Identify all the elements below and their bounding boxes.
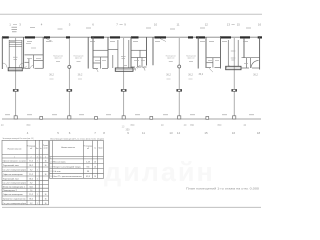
hall 2 labels: [166, 55, 196, 59]
svg-text:5: 5: [45, 156, 46, 158]
axis pair dashes: [13, 24, 235, 26]
middle table header labels: [61, 146, 102, 151]
svg-text:15,2: 15,2: [29, 174, 33, 176]
bath block C: [132, 50, 147, 70]
svg-text:Приме: Приме: [43, 145, 48, 147]
shaft E platform: [226, 66, 241, 69]
svg-text:36,2: 36,2: [188, 74, 193, 77]
svg-text:3: 3: [37, 156, 38, 158]
left table right col marks: [37, 160, 47, 205]
svg-text:36,2: 36,2: [198, 73, 203, 76]
svg-text:36,2: 36,2: [29, 178, 33, 180]
top wall piers: [2, 36, 262, 38]
svg-text:3-й этаж: 3-й этаж: [53, 170, 61, 173]
area labels left: [49, 74, 83, 77]
shaft E text: [231, 51, 236, 60]
svg-text:16: 16: [45, 160, 47, 162]
svg-text:1: 1: [37, 160, 38, 162]
door swing D: [209, 68, 213, 72]
svg-text:36,2: 36,2: [78, 74, 83, 77]
shaft A platform: [8, 68, 22, 71]
svg-text:15: 15: [204, 131, 208, 135]
svg-text:офисное: офисное: [187, 57, 194, 60]
svg-text:16: 16: [45, 198, 47, 200]
svg-text:8,6: 8,6: [87, 166, 90, 168]
bottom dim numbers: [1, 124, 247, 129]
svg-text:Наименование: Наименование: [61, 147, 76, 149]
hall 1 label dashes: [56, 61, 81, 63]
stacked dimension values left: [12, 27, 18, 32]
svg-text:36,2: 36,2: [49, 74, 54, 77]
dim dashes under top wall: [10, 40, 248, 42]
area labels right: [166, 73, 258, 77]
wall x244: [243, 38, 245, 58]
svg-text:3,2: 3,2: [30, 183, 33, 185]
svg-text:Сан. узел с помещением уборки: Сан. узел с помещением уборки: [3, 169, 26, 171]
axis H markers low: [13, 89, 237, 92]
svg-text:1: 1: [37, 178, 38, 180]
svg-text:16: 16: [94, 162, 96, 164]
svg-text:3,2: 3,2: [30, 203, 33, 205]
bath block D: [207, 58, 221, 68]
svg-text:350: 350: [130, 124, 135, 127]
bottom rule: [2, 206, 261, 208]
svg-text:36,2: 36,2: [166, 74, 171, 77]
svg-text:Торговый зал: Торговый зал: [3, 177, 19, 180]
lower axis number row: [27, 131, 261, 135]
stair shaft E: [228, 40, 238, 66]
svg-text:Кол: Кол: [36, 148, 39, 150]
long axis vertical lines: [16, 38, 235, 119]
shaft C door swing: [133, 67, 137, 71]
scattered dimension texts over plan: [30, 28, 251, 30]
svg-text:15,2: 15,2: [29, 160, 33, 162]
svg-text:350: 350: [126, 128, 131, 131]
svg-text:350: 350: [190, 124, 195, 127]
left table header labels: [8, 145, 49, 150]
svg-text:1: 1: [37, 169, 38, 171]
unit walls group A: [2, 37, 43, 69]
svg-text:16: 16: [94, 176, 96, 178]
svg-text:Прим: Прим: [98, 148, 102, 150]
left table grid: [2, 140, 49, 205]
svg-text:41,8: 41,8: [86, 176, 90, 178]
svg-text:16: 16: [258, 22, 262, 26]
svg-text:1: 1: [37, 194, 38, 196]
hall 2 label dashes: [169, 61, 193, 63]
shaft C text: [108, 50, 127, 66]
svg-text:18: 18: [257, 131, 261, 135]
svg-text:16: 16: [45, 165, 47, 167]
svg-text:Офисное помещение: Офисное помещение: [3, 193, 23, 196]
svg-text:54,6: 54,6: [29, 186, 32, 188]
svg-text:дилайн: дилайн: [104, 157, 215, 187]
svg-text:1: 1: [14, 156, 15, 158]
shaft C platform: [115, 68, 133, 71]
svg-text:офисное: офисное: [75, 57, 82, 60]
left table numbering strip: [14, 156, 46, 158]
svg-text:13: 13: [169, 131, 173, 135]
unit walls group C: [147, 37, 154, 66]
top frame rule: [0, 13, 262, 15]
dim square markers: [14, 116, 236, 120]
svg-text:Пекарня с реализацией товара: Пекарня с реализацией товара: [53, 165, 81, 168]
left table rows text: [3, 159, 33, 205]
svg-text:1: 1: [37, 203, 38, 205]
top axis numbers row: [9, 22, 261, 26]
svg-text:16: 16: [94, 166, 96, 168]
svg-text:Наименование: Наименование: [8, 148, 23, 150]
svg-text:1: 1: [50, 157, 51, 159]
middle table rows text: [50, 157, 96, 178]
svg-text:офисное: офисное: [54, 57, 61, 60]
svg-text:Помещение 2: Помещение 2: [3, 190, 17, 192]
svg-text:350: 350: [217, 124, 222, 127]
svg-text:Экспликация помещений 1-го эта: Экспликация помещений 1-го этажа (пом. 6…: [50, 138, 104, 141]
svg-text:2: 2: [31, 156, 32, 158]
svg-text:36,2: 36,2: [29, 165, 33, 167]
svg-text:Сан. узел с помещением уборки: Сан. узел с помещением уборки: [3, 183, 26, 185]
svg-text:1,23: 1,23: [86, 162, 90, 164]
unit walls group B: [88, 37, 131, 69]
svg-text:Экспликация помещений 1-го эта: Экспликация помещений 1-го этажа (пом. 1…: [3, 137, 34, 140]
svg-text:Итого по помещению 1: Итого по помещению 1: [3, 186, 25, 188]
shaft A door swing: [22, 66, 27, 70]
bath block B: [93, 50, 113, 68]
column ring markers mid: [68, 65, 181, 68]
svg-text:350: 350: [26, 124, 31, 127]
top wall base line: [2, 36, 260, 38]
svg-text:чание: чание: [43, 148, 47, 150]
svg-text:офисное: офисное: [167, 57, 174, 60]
unit walls group E: [259, 37, 261, 70]
svg-text:Торговый зал: Торговый зал: [3, 164, 19, 167]
unit walls group D: [198, 37, 220, 69]
svg-text:11: 11: [142, 131, 145, 135]
svg-text:3,2: 3,2: [30, 169, 33, 171]
middle table grid: [50, 141, 104, 179]
svg-text:36: 36: [87, 171, 89, 173]
stair shaft A: [9, 40, 22, 68]
svg-text:11: 11: [176, 22, 179, 26]
stair shaft C: [118, 40, 129, 68]
svg-text:Офисное помещение: Офисное помещение: [3, 173, 23, 176]
svg-text:4: 4: [40, 156, 41, 158]
svg-text:14: 14: [177, 131, 181, 135]
svg-text:16: 16: [45, 174, 47, 176]
svg-text:15: 15: [237, 22, 241, 26]
svg-text:13: 13: [227, 22, 231, 26]
svg-text:м²: м²: [30, 147, 32, 150]
svg-text:м²: м²: [87, 147, 89, 150]
dim texts above line: [5, 114, 254, 116]
svg-text:10: 10: [154, 22, 158, 26]
svg-text:16: 16: [45, 194, 47, 196]
bath block A: [25, 55, 44, 68]
svg-text:2,6: 2,6: [30, 190, 32, 192]
svg-text:Узел РГ с цветочным магазином: Узел РГ с цветочным магазином: [53, 176, 82, 178]
svg-text:16: 16: [232, 131, 236, 135]
hall 1 labels: [53, 55, 83, 59]
svg-text:Мясная лавка: Мясная лавка: [53, 162, 66, 164]
shaft A text: [13, 57, 18, 59]
bath block E: [242, 58, 260, 68]
door arcs: [3, 38, 230, 72]
svg-text:36,2: 36,2: [253, 74, 258, 77]
svg-text:План помещений 1-го этажа на о: План помещений 1-го этажа на отм. 0,000: [186, 186, 259, 190]
svg-text:16: 16: [45, 203, 47, 205]
room text smudges: [26, 44, 248, 64]
svg-text:12: 12: [205, 22, 209, 26]
svg-text:36,2: 36,2: [29, 198, 33, 200]
svg-text:Офисное помещение с сан.узлом: Офисное помещение с сан.узлом: [3, 159, 27, 162]
svg-text:Сан. узел с помещением уборки: Сан. узел с помещением уборки: [3, 203, 26, 205]
svg-text:15,2: 15,2: [29, 194, 33, 196]
svg-text:Торговый зал с подсобным пом.: Торговый зал с подсобным пом.: [3, 197, 26, 200]
bottom dimension line: [2, 118, 261, 120]
